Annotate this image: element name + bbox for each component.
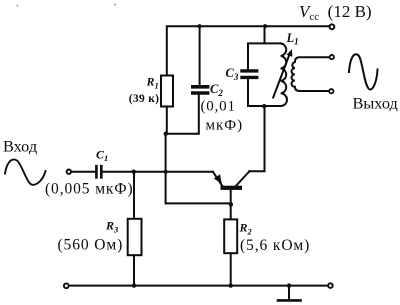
junction tank top on rail [263,24,267,28]
ground [278,286,301,301]
base lead down [230,190,232,220]
inductor L1 secondary winding [291,57,330,91]
base bar [221,186,243,190]
input terminal [67,170,71,174]
output sine [349,54,378,89]
emitter lead with arrow [213,172,222,186]
svg-text:Выход: Выход [353,94,398,113]
svg-text:(560 Ом): (560 Ом) [58,236,124,253]
svg-text:C1: C1 [96,148,108,164]
L1 variable arrow [273,53,290,98]
Vcc terminal [330,24,335,29]
svg-text:Вход: Вход [3,137,37,156]
junction R1/C2 [164,132,168,136]
junction R3 bottom [132,283,136,287]
wire collector up to tank [250,106,265,171]
output terminal bottom [329,89,333,93]
junction R2 bottom [229,283,233,287]
svg-text:R3: R3 [105,219,119,235]
svg-text:C3: C3 [226,66,239,82]
svg-text:C2: C2 [210,82,223,98]
svg-text:R1: R1 [146,75,159,91]
right bottom terminal [328,283,333,288]
svg-text:(39 к): (39 к) [129,93,159,105]
capacitor C2 [166,26,208,134]
wire R1 node down to base wire [166,134,231,204]
svg-text:Vcc (12 В): Vcc (12 В) [299,2,372,23]
svg-text:L1: L1 [286,31,299,47]
resistor R1 [161,76,173,134]
wire input to C1 [72,171,95,173]
junction C2 top on rail [198,24,202,28]
junction ground stub [287,283,291,287]
svg-text:R2: R2 [239,221,253,237]
wire C1 to emitter [103,171,213,173]
left bottom terminal [64,283,69,288]
svg-text:мкФ): мкФ) [206,117,244,133]
transistor Q1 [213,171,250,219]
capacitor C3 [242,71,257,78]
input sine [5,159,46,184]
junction base [229,202,233,206]
wire bottom ground rail [69,285,327,287]
collector lead [236,171,249,185]
wire tank loop left and C3 branch [248,78,265,107]
resistor R3 [128,172,142,286]
junction tank bottom [262,104,266,108]
junction crossing emitter wire [164,170,168,174]
wire top supply rail [167,26,329,75]
svg-text:(5,6 кОм): (5,6 кОм) [240,237,310,254]
svg-text:(0,005 мкФ): (0,005 мкФ) [45,180,134,197]
resistor R2 [224,219,237,285]
svg-text:(0,01: (0,01 [201,98,236,114]
output terminal top [330,55,334,59]
capacitor C1 [96,166,101,177]
inductor L1 primary winding [281,43,287,106]
junction C1/R3 [132,170,136,174]
wire stub rail to tank top [264,26,266,43]
